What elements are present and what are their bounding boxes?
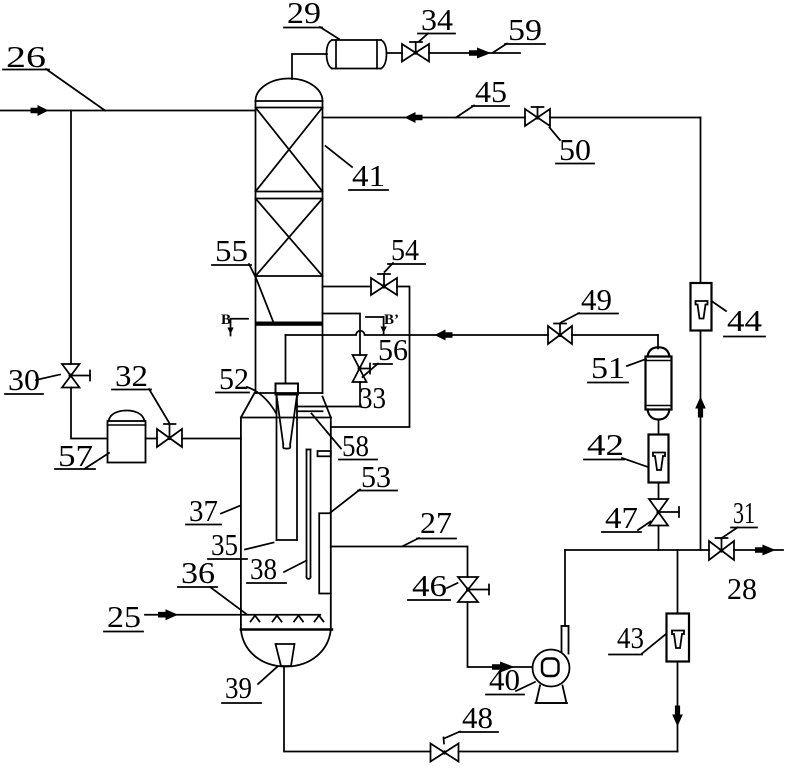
label 28 xyxy=(727,571,757,606)
wire vessel 57 to valve 32 xyxy=(146,438,158,440)
svg-text:27: 27 xyxy=(420,505,452,540)
wire branch to valve 30 xyxy=(70,111,72,365)
valve 49 xyxy=(548,324,572,345)
label 57 xyxy=(55,438,109,473)
valve 32 xyxy=(157,424,182,447)
draft tube 35 xyxy=(277,395,298,541)
arrow on feed line 49 xyxy=(435,330,453,341)
wire header down to rotameter 43 xyxy=(677,550,679,614)
label 54 xyxy=(385,232,426,272)
valve 30 xyxy=(62,364,90,388)
packing X section 1 of column 41 xyxy=(256,108,323,192)
svg-text:55: 55 xyxy=(215,233,248,268)
vessel 37 shell xyxy=(241,393,332,667)
section marker B' xyxy=(366,312,399,335)
wire valve 34 to outlet 59 xyxy=(429,52,520,54)
svg-text:52: 52 xyxy=(219,361,249,396)
svg-text:39: 39 xyxy=(225,670,252,705)
internal nozzle of line 33 xyxy=(297,407,323,412)
svg-text:38: 38 xyxy=(250,551,277,586)
wire valve 54 loop down to vessel 37 xyxy=(331,287,410,428)
wire pump discharge xyxy=(564,550,566,626)
svg-text:48: 48 xyxy=(462,700,493,735)
svg-text:35: 35 xyxy=(211,527,238,562)
label 52 xyxy=(216,361,276,413)
label 48 xyxy=(444,700,498,739)
wire main discharge header xyxy=(565,549,783,551)
label 39 xyxy=(222,667,278,706)
valve 34 xyxy=(402,42,429,62)
svg-text:40: 40 xyxy=(489,662,520,697)
pump 40 xyxy=(533,626,570,703)
svg-text:33: 33 xyxy=(359,380,386,415)
wire column to valve 54 xyxy=(323,286,372,288)
wire column top nozzle xyxy=(292,54,327,79)
wire valve 46 to pump suction xyxy=(468,602,533,667)
wire rotameter 43 down xyxy=(677,662,679,752)
svg-text:44: 44 xyxy=(727,303,763,338)
label 56 xyxy=(363,332,409,377)
label 31 xyxy=(721,495,757,539)
wire valve 32 to vessel 37 xyxy=(182,438,241,440)
svg-text:46: 46 xyxy=(412,568,447,603)
svg-text:47: 47 xyxy=(605,500,638,535)
wire column to valve 56 xyxy=(323,314,361,356)
svg-text:56: 56 xyxy=(378,332,408,367)
label 41 xyxy=(326,146,389,193)
arrow to stream 28 xyxy=(755,545,776,556)
side tube 53 xyxy=(319,513,331,593)
adsorber column 51 xyxy=(646,347,672,419)
arrow on line 26 xyxy=(31,105,49,116)
label 27 xyxy=(403,505,456,546)
label 49 xyxy=(561,282,618,323)
label 36 xyxy=(178,555,247,615)
label 32 xyxy=(112,358,169,423)
valve 54 xyxy=(371,274,397,295)
label 33 xyxy=(359,380,386,415)
feed dip pipe into 52 xyxy=(285,335,287,384)
valve 47 xyxy=(649,499,679,526)
label 58 xyxy=(312,414,378,464)
svg-text:37: 37 xyxy=(189,493,218,528)
svg-text:34: 34 xyxy=(421,2,454,37)
svg-text:50: 50 xyxy=(559,132,591,167)
svg-text:42: 42 xyxy=(587,427,624,462)
svg-text:41: 41 xyxy=(352,158,385,193)
wire line 26 xyxy=(0,110,256,112)
svg-text:31: 31 xyxy=(733,495,755,530)
float of rotameter 44 xyxy=(696,301,708,319)
section marker B xyxy=(221,312,248,336)
valve 56 xyxy=(353,355,371,382)
wire line 27 xyxy=(331,547,468,578)
condenser vessel 29 xyxy=(327,40,387,69)
label 46 xyxy=(408,568,458,603)
label 29 xyxy=(284,0,339,39)
label 34 xyxy=(418,2,455,42)
label 35 xyxy=(208,527,274,562)
svg-text:43: 43 xyxy=(617,620,644,655)
arrow pump suction xyxy=(492,662,515,673)
wire valve 30 to vessel 57 xyxy=(71,388,108,439)
svg-text:51: 51 xyxy=(591,350,625,385)
label 37 xyxy=(186,493,241,528)
label 51 xyxy=(588,350,646,385)
svg-text:53: 53 xyxy=(361,459,391,494)
tray B-B (item 55) thick band xyxy=(256,322,323,326)
svg-text:B’: B’ xyxy=(384,312,399,328)
valve 50 xyxy=(525,107,550,126)
valve 48 xyxy=(431,738,459,762)
label 50 xyxy=(550,128,595,168)
label 55 xyxy=(212,233,274,323)
svg-text:B: B xyxy=(221,312,231,328)
column 41 shell xyxy=(256,79,323,394)
arrow to stream 59 xyxy=(469,48,491,59)
label 38 xyxy=(247,551,307,586)
svg-text:59: 59 xyxy=(508,12,542,47)
valve 46 xyxy=(458,577,489,602)
thermowell tube 38 xyxy=(307,450,311,580)
wire valve 48 to junction xyxy=(459,751,678,753)
wire rotameter 44 down to main line xyxy=(700,331,702,551)
distributor box 52 xyxy=(276,384,299,395)
sparger 36 xyxy=(241,615,324,622)
svg-text:28: 28 xyxy=(727,571,757,606)
wire column 51 to rotameter 42 xyxy=(658,420,660,435)
label 43 xyxy=(609,620,666,655)
valve 31 xyxy=(709,538,734,560)
svg-text:36: 36 xyxy=(181,555,215,590)
outlet funnel 39 xyxy=(276,644,295,666)
arrow on line 25 xyxy=(158,609,178,620)
internal stub 58 xyxy=(318,451,331,456)
wire valve 47 to header xyxy=(658,526,660,551)
float of rotameter 43 xyxy=(672,631,684,649)
svg-text:54: 54 xyxy=(391,232,419,267)
label 26 xyxy=(3,39,105,111)
svg-text:49: 49 xyxy=(581,282,612,317)
float of rotameter 42 xyxy=(653,453,665,471)
wire condenser 29 to valve 34 xyxy=(387,52,403,54)
label 53 xyxy=(331,459,398,513)
wire right riser top xyxy=(700,118,702,284)
funnel inside tube 35 xyxy=(277,395,298,449)
rotameter 43 xyxy=(667,614,690,662)
wire line 25 xyxy=(145,614,241,616)
label 42 xyxy=(584,427,648,467)
label 30 xyxy=(5,362,60,397)
rotameter 44 xyxy=(691,283,712,331)
svg-text:45: 45 xyxy=(475,74,507,109)
wire rotameter 42 to valve 47 xyxy=(658,483,660,500)
label 47 xyxy=(602,500,651,535)
vessel 57 xyxy=(108,411,146,463)
svg-text:25: 25 xyxy=(107,599,141,634)
svg-text:29: 29 xyxy=(287,0,321,30)
label 44 xyxy=(712,301,766,338)
wire feed line 49 with crossing hop xyxy=(286,331,659,349)
packing X section 2 of column 41 xyxy=(256,199,323,277)
arrow up on riser xyxy=(695,397,706,418)
wire valve 56 return to column xyxy=(323,382,361,407)
arrow on line 45 xyxy=(405,112,423,123)
label 59 xyxy=(493,12,545,53)
wire line 45 xyxy=(323,117,701,119)
arrow down on 43 line xyxy=(672,706,683,727)
label 40 xyxy=(486,662,535,697)
label 25 xyxy=(104,599,143,634)
svg-text:32: 32 xyxy=(115,358,148,393)
label 45 xyxy=(456,74,509,118)
svg-text:58: 58 xyxy=(342,428,369,463)
rotameter 42 xyxy=(649,435,669,483)
wire vessel bottom outlet xyxy=(284,667,431,752)
